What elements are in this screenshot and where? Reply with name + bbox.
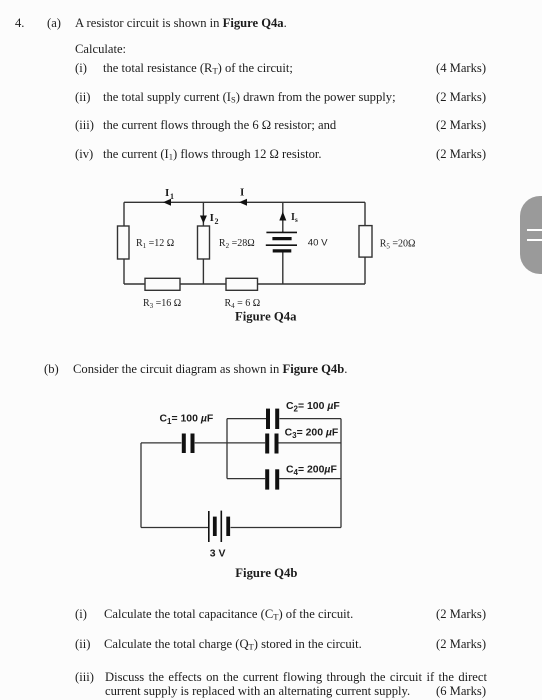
capacitor C3 [267, 434, 276, 454]
svg-text:I: I [210, 212, 214, 224]
arrow I2 [200, 216, 207, 224]
wire left [123, 202, 125, 284]
wire bottom left [141, 527, 208, 529]
resistor R5 [359, 226, 372, 258]
handle line 1 [527, 229, 542, 231]
svg-text:C2= 100 µF: C2= 100 µF [286, 401, 340, 414]
svg-text:R4 = 6 Ω: R4 = 6 Ω [225, 298, 261, 310]
resistor R3 [145, 278, 180, 290]
wire C3 branch [227, 442, 265, 444]
resistor R2 [198, 226, 210, 259]
wire C1 right to rail [195, 442, 227, 444]
svg-text:I: I [165, 187, 169, 199]
battery 3V [209, 511, 228, 542]
wire right rail [340, 419, 342, 528]
wire left [140, 443, 142, 528]
item (iii) [75, 118, 94, 133]
svg-text:C1= 100 µF: C1= 100 µF [160, 413, 214, 426]
wire C4 branch [227, 478, 265, 480]
svg-text:2: 2 [215, 217, 219, 226]
wire C1 left [141, 442, 181, 444]
bottom item (ii) [75, 637, 90, 652]
side handle pill [520, 196, 542, 274]
svg-text:C4= 200µF: C4= 200µF [286, 464, 337, 477]
svg-text:R1 =12 Ω: R1 =12 Ω [136, 238, 174, 250]
wire junction rail [226, 419, 228, 479]
part (b) line [44, 362, 59, 377]
wire C2 branch [227, 418, 266, 420]
capacitor C2 [268, 409, 277, 429]
wire top [124, 201, 365, 203]
svg-text:1: 1 [170, 192, 174, 201]
svg-text:s: s [295, 216, 298, 224]
resistor R4 [226, 278, 258, 290]
wire bottom right [231, 527, 342, 529]
capacitor C4 [267, 469, 277, 489]
svg-text:R5 =20Ω: R5 =20Ω [380, 239, 416, 251]
svg-text:R3 =16 Ω: R3 =16 Ω [143, 298, 181, 310]
capacitor C1 [184, 434, 193, 454]
question 4 header line [15, 16, 24, 31]
wire bottom [124, 283, 365, 285]
bottom item (i) [75, 607, 87, 622]
bottom item (iii) [75, 670, 94, 685]
wire battery leg [282, 202, 284, 232]
resistor R1 [118, 226, 130, 259]
Calculate: line [75, 42, 126, 57]
item (iv) [75, 147, 93, 162]
svg-text:3 V: 3 V [210, 549, 226, 560]
svg-text:Figure Q4a: Figure Q4a [235, 310, 297, 324]
arrow I [239, 199, 247, 206]
arrow I1 [163, 199, 171, 206]
handle line 2 [527, 239, 542, 241]
svg-text:Figure Q4b: Figure Q4b [235, 566, 297, 580]
svg-text:R2 =28Ω: R2 =28Ω [219, 238, 255, 250]
item (ii) [75, 90, 90, 105]
wire middle [202, 202, 204, 284]
svg-text:40 V: 40 V [308, 238, 328, 249]
battery 40V [266, 232, 297, 251]
item (i) [75, 61, 87, 76]
svg-text:I: I [240, 187, 244, 199]
arrow Is [279, 212, 286, 221]
svg-text:C3= 200 µF: C3= 200 µF [285, 428, 339, 441]
wire right [364, 202, 366, 284]
